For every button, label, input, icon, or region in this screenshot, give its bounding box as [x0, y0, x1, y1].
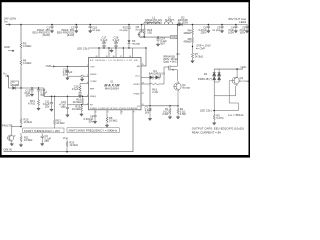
transistor Q1 MOSFET — [163, 52, 180, 80]
node OVP tap — [192, 43, 211, 50]
capacitor C13 — [24, 87, 33, 97]
diode D2 — [177, 16, 188, 27]
resistor R11 bottom — [19, 133, 32, 147]
wire LED- top — [214, 68, 243, 70]
text note output caps — [192, 126, 244, 134]
node LED- label — [241, 65, 247, 69]
capacitor C4 — [228, 24, 238, 35]
diode D3 zener pair — [198, 69, 221, 110]
svg-text:16.9kΩ: 16.9kΩ — [109, 118, 117, 122]
svg-text:REF: REF — [90, 88, 95, 90]
svg-text:Q3: Q3 — [240, 76, 244, 80]
svg-text:4.7kΩ: 4.7kΩ — [28, 101, 35, 105]
svg-text:25V: 25V — [114, 41, 119, 45]
node GND label — [4, 45, 14, 52]
svg-text:16: 16 — [129, 56, 131, 58]
svg-text:7: 7 — [108, 112, 109, 114]
svg-text:499kΩ: 499kΩ — [183, 39, 191, 43]
wire LED CS(-) net left — [77, 47, 146, 51]
resistor R15 — [72, 104, 83, 116]
svg-text:PDZ9.1B (*): PDZ9.1B (*) — [198, 77, 212, 81]
svg-text:18: 18 — [113, 56, 115, 58]
resistor R8 OVP mid — [183, 35, 193, 52]
transistor Q3 dim FET — [232, 69, 249, 86]
svg-text:2: 2 — [87, 75, 88, 77]
svg-text:PGND: PGND — [133, 94, 140, 96]
svg-text:4.02kΩ: 4.02kΩ — [23, 44, 31, 48]
capacitor C12 — [37, 87, 48, 97]
resistor R6 OVP top — [183, 25, 193, 36]
svg-text:10.0kΩ: 10.0kΩ — [56, 121, 64, 125]
svg-text:SGND PGND RT/SYNC UVEN PWMDIM: SGND PGND RT/SYNC UVEN PWMDIM — [90, 108, 138, 110]
wire top rail — [6, 24, 248, 26]
wire left column — [20, 25, 22, 89]
svg-text:5: 5 — [87, 103, 88, 105]
svg-text:25V: 25V — [44, 139, 49, 143]
outer border right — [249, 0, 251, 158]
text box START THRESHOLD — [23, 128, 64, 133]
inductor L2 (short) — [164, 16, 174, 24]
svg-text:16V: 16V — [145, 110, 150, 114]
wire VCC elbow to REF rail — [44, 88, 89, 96]
svg-text:LED-: LED- — [241, 65, 247, 69]
svg-text:9: 9 — [134, 112, 135, 114]
svg-text:OVP: OVP — [200, 46, 206, 50]
svg-text:DIM IN: DIM IN — [4, 147, 12, 151]
capacitor C16 — [113, 36, 120, 49]
svg-text:0.5W: 0.5W — [180, 112, 187, 116]
svg-text:20.0kΩ: 20.0kΩ — [73, 100, 81, 104]
node drain junction — [177, 24, 179, 26]
svg-text:EP SENSE+ LV DIMOUT CLK HB: EP SENSE+ LV DIMOUT CLK HB — [90, 60, 138, 62]
svg-text:no pop: no pop — [92, 29, 100, 32]
wire NDRV gate — [141, 67, 169, 94]
capacitor C7 — [145, 105, 152, 120]
outer border left — [0, 0, 2, 158]
svg-text:COMP: COMP — [90, 81, 97, 83]
wire Q3 base network — [229, 81, 238, 111]
svg-text:499kΩ: 499kΩ — [183, 31, 191, 35]
capacitor C11 — [50, 96, 53, 112]
diode D5 (no pop) — [11, 81, 44, 90]
svg-text:(8x20): (8x20) — [43, 33, 50, 37]
svg-text:SWITCHING FREQUENCY = 500kHz: SWITCHING FREQUENCY = 500kHz — [69, 129, 118, 133]
ground mid stub — [110, 49, 113, 53]
wire VIN branch — [142, 36, 171, 38]
svg-text:10.0kΩ: 10.0kΩ — [69, 143, 77, 147]
svg-text:250V: 250V — [201, 31, 207, 35]
diode D4 pair — [141, 69, 165, 80]
transistor Q5 (no pop) — [136, 24, 145, 38]
svg-text:D3: D3 — [204, 72, 208, 76]
resistor R4 — [20, 59, 22, 66]
wire VCC label — [3, 71, 12, 88]
svg-text:VIN: VIN — [171, 35, 175, 39]
node VIN net label — [171, 35, 177, 39]
resistor R3 — [20, 42, 22, 49]
svg-text:FREQ: FREQ — [90, 96, 96, 98]
svg-text:4.02kΩ: 4.02kΩ — [23, 61, 31, 65]
wire LED CS(-) right — [200, 109, 239, 113]
capacitor C11 value label — [43, 99, 50, 108]
node 80V OUT max / LED1 — [229, 17, 247, 24]
diode D6 — [128, 38, 141, 48]
svg-text:10Ω: 10Ω — [147, 30, 152, 34]
wire PWMDIM down to DIM rail — [4, 110, 134, 152]
svg-text:OVP: OVP — [90, 66, 95, 68]
svg-text:50V: 50V — [63, 72, 68, 76]
IC bottom pin C8 — [84, 110, 97, 124]
svg-text:6: 6 — [96, 112, 97, 114]
svg-text:no pop: no pop — [120, 29, 128, 32]
svg-text:5.47Ω: 5.47Ω — [216, 116, 223, 120]
wire UVEN stub — [120, 110, 122, 115]
capacitor C6 — [198, 24, 210, 35]
node test point TP — [68, 75, 89, 81]
svg-text:LED CS(-): LED CS(-) — [77, 47, 89, 51]
svg-text:VCC: VCC — [135, 76, 140, 78]
svg-text:19: 19 — [106, 56, 108, 58]
svg-text:HB: HB — [137, 66, 141, 68]
svg-text:8: 8 — [122, 112, 123, 114]
svg-text:50V: 50V — [160, 42, 165, 46]
svg-text:MAX16834: MAX16834 — [105, 86, 119, 90]
node junction x21 — [20, 24, 22, 26]
svg-text:no pop: no pop — [182, 86, 190, 89]
svg-text:PZT2222A: PZT2222A — [238, 80, 249, 83]
node OVP net label left — [46, 64, 55, 68]
svg-text:2.2Ω: 2.2Ω — [152, 90, 158, 94]
resistor R2 sense — [176, 106, 186, 119]
resistor R1 sense — [162, 106, 171, 119]
resistor R14 REF divider — [68, 96, 89, 105]
capacitor C3 — [212, 24, 223, 33]
svg-text:15: 15 — [142, 64, 144, 66]
resistor R18 — [143, 25, 152, 38]
capacitor C20 COMP network — [72, 84, 89, 98]
svg-text:25V: 25V — [45, 104, 50, 108]
outer border top — [0, 0, 250, 2]
capacitor C14 — [156, 37, 167, 47]
svg-text:CS: CS — [137, 106, 141, 108]
svg-text:24V ±10%: 24V ±10% — [4, 17, 17, 21]
svg-text:16.9kΩ: 16.9kΩ — [24, 138, 32, 142]
svg-text:16.9kΩ: 16.9kΩ — [24, 120, 32, 124]
resistor R12 — [53, 96, 64, 128]
svg-text:25V: 25V — [102, 41, 107, 45]
resistor R7 — [191, 52, 203, 63]
wire CS elbow to HB pin — [141, 48, 146, 66]
capacitor C18 — [89, 24, 101, 33]
text box SWITCHING FREQUENCY — [67, 128, 119, 133]
resistor R17 (no pop) — [120, 24, 131, 38]
capacitor C17 — [101, 36, 108, 49]
svg-text:NDRV: NDRV — [134, 84, 141, 86]
svg-text:no pop: no pop — [136, 29, 144, 32]
svg-text:Qg(t) = 9nC: Qg(t) = 9nC — [163, 59, 177, 63]
resistor R9 RT — [105, 110, 117, 127]
resistor R13 — [28, 93, 40, 111]
node FAULTB — [2, 124, 22, 128]
resistor R20 — [66, 139, 78, 152]
svg-text:50V: 50V — [26, 94, 31, 98]
node junction VCC/col — [20, 87, 22, 89]
svg-text:10.0kΩ: 10.0kΩ — [72, 107, 80, 111]
svg-text:100V: 100V — [228, 31, 234, 35]
svg-text:GND: GND — [4, 45, 10, 49]
capacitor C15 — [59, 96, 69, 117]
svg-text:(8x20): (8x20) — [67, 33, 74, 37]
IC top pin stubs — [99, 48, 133, 58]
svg-text:SGND: SGND — [90, 74, 97, 76]
svg-text:50V: 50V — [89, 120, 94, 124]
node VIN input label 24V +/-10% — [4, 17, 17, 26]
inductor L1 — [144, 16, 163, 25]
svg-text:no pop: no pop — [132, 43, 140, 46]
svg-text:BAV199(S) (*): BAV199(S) (*) — [149, 72, 165, 76]
svg-text:START THRESHOLD = 20V: START THRESHOLD = 20V — [24, 129, 60, 133]
capacitor C9 bottom — [41, 134, 52, 146]
resistor R5 LED sense — [213, 111, 224, 126]
svg-text:1: 1 — [87, 65, 88, 67]
svg-text:100V: 100V — [239, 31, 245, 35]
svg-text:20: 20 — [96, 56, 98, 58]
svg-text:FAULT/B: FAULT/B — [2, 124, 13, 128]
node output junction — [192, 24, 194, 26]
wire drain column — [177, 25, 179, 62]
svg-text:LED1: LED1 — [239, 20, 246, 24]
svg-text:LED CS(-): LED CS(-) — [200, 109, 212, 113]
wire Q3 emitter return — [214, 86, 236, 96]
svg-text:0.5W: 0.5W — [162, 112, 169, 116]
bottom black bar — [0, 155, 250, 158]
wire OVP to pin1 — [55, 65, 89, 67]
svg-text:Q1: Q1 — [176, 52, 180, 56]
capacitor C5 — [239, 25, 248, 35]
svg-text:25V: 25V — [61, 105, 66, 109]
svg-text:no pop: no pop — [212, 29, 220, 32]
svg-text:12: 12 — [142, 93, 144, 95]
capacitor C2 — [57, 24, 78, 38]
svg-text:4: 4 — [87, 95, 88, 97]
transistor Q4 no pop — [174, 80, 191, 106]
IC U1 MAXIM MAX16834 — [89, 58, 142, 110]
transistor Q2 bottom left — [7, 127, 16, 146]
svg-text:OVP: OVP — [46, 64, 52, 68]
svg-text:no pop: no pop — [12, 84, 19, 86]
svg-text:PEAK CURRENT = 8A: PEAK CURRENT = 8A — [192, 130, 221, 134]
node VREF label — [63, 136, 69, 140]
svg-text:17: 17 — [120, 56, 122, 58]
wire CS sense — [141, 80, 150, 105]
capacitor C10 — [63, 66, 73, 80]
capacitor C1 — [33, 24, 54, 38]
svg-text:0.1µF: 0.1µF — [72, 87, 79, 91]
svg-text:14.3kΩ: 14.3kΩ — [195, 54, 203, 58]
resistor R10 FLT pullup — [20, 88, 32, 127]
